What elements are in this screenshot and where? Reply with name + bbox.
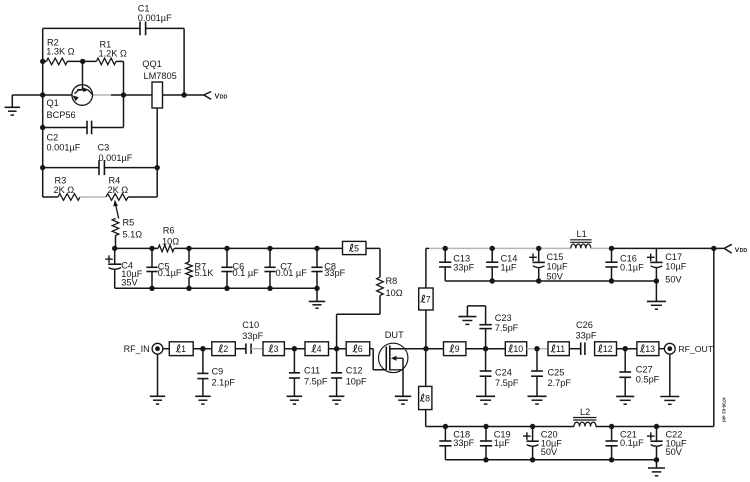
- svg-text:10: 10: [513, 344, 523, 354]
- svg-text:C2: C2: [47, 132, 59, 142]
- svg-text:C27: C27: [636, 364, 653, 374]
- svg-text:2: 2: [223, 344, 228, 354]
- svg-text:7.5pF: 7.5pF: [495, 378, 519, 388]
- svg-text:4: 4: [317, 344, 322, 354]
- svg-text:QQ1: QQ1: [142, 59, 161, 69]
- svg-text:33pF: 33pF: [453, 262, 474, 272]
- svg-text:R6: R6: [163, 225, 175, 235]
- svg-text:1.3K Ω: 1.3K Ω: [46, 47, 74, 57]
- svg-text:5.1Ω: 5.1Ω: [123, 230, 143, 240]
- svg-text:4736-01 a/d: 4736-01 a/d: [722, 397, 727, 422]
- svg-text:L1: L1: [577, 229, 587, 239]
- svg-text:0.5pF: 0.5pF: [636, 375, 660, 385]
- svg-text:13: 13: [645, 344, 655, 354]
- svg-text:1.2K Ω: 1.2K Ω: [99, 49, 127, 59]
- svg-text:33pF: 33pF: [453, 438, 474, 448]
- svg-text:LM7805: LM7805: [144, 71, 177, 81]
- svg-text:3: 3: [274, 344, 279, 354]
- svg-text:35V: 35V: [121, 278, 138, 288]
- svg-text:Q1: Q1: [47, 98, 59, 108]
- svg-text:10pF: 10pF: [346, 376, 367, 386]
- svg-text:DD: DD: [740, 248, 748, 254]
- svg-text:7: 7: [426, 294, 431, 304]
- svg-text:33pF: 33pF: [576, 331, 597, 341]
- svg-text:10Ω: 10Ω: [386, 288, 403, 298]
- svg-text:10Ω: 10Ω: [162, 237, 179, 247]
- svg-text:10µF: 10µF: [547, 262, 569, 272]
- svg-text:C15: C15: [547, 252, 564, 262]
- svg-text:10µF: 10µF: [665, 262, 687, 272]
- svg-text:9: 9: [455, 344, 460, 354]
- svg-text:2K Ω: 2K Ω: [108, 185, 129, 195]
- svg-text:C23: C23: [495, 313, 512, 323]
- svg-text:C9: C9: [212, 367, 224, 377]
- svg-text:50V: 50V: [666, 447, 683, 457]
- svg-text:L2: L2: [580, 407, 590, 417]
- svg-text:0.001µF: 0.001µF: [99, 153, 133, 163]
- svg-text:8: 8: [425, 393, 430, 403]
- svg-text:R3: R3: [55, 176, 67, 186]
- svg-text:BCP56: BCP56: [47, 110, 76, 120]
- svg-text:DD: DD: [220, 95, 228, 101]
- svg-text:C10: C10: [242, 320, 259, 330]
- svg-text:C25: C25: [548, 368, 565, 378]
- svg-text:0.1µF: 0.1µF: [620, 262, 644, 272]
- svg-text:RF_IN: RF_IN: [124, 344, 150, 354]
- svg-text:0.1µF: 0.1µF: [158, 268, 182, 278]
- svg-text:7.5pF: 7.5pF: [304, 376, 328, 386]
- svg-text:50V: 50V: [547, 271, 564, 281]
- svg-text:C24: C24: [495, 368, 512, 378]
- svg-text:0.001µF: 0.001µF: [138, 13, 172, 23]
- svg-text:C17: C17: [665, 252, 682, 262]
- svg-text:C12: C12: [346, 366, 363, 376]
- svg-text:50V: 50V: [541, 447, 558, 457]
- svg-text:1: 1: [181, 344, 186, 354]
- svg-text:33pF: 33pF: [324, 268, 345, 278]
- svg-text:6: 6: [358, 344, 363, 354]
- svg-text:0.01 µF: 0.01 µF: [276, 268, 308, 278]
- svg-text:2K Ω: 2K Ω: [54, 185, 75, 195]
- svg-text:C3: C3: [98, 143, 110, 153]
- svg-text:R4: R4: [109, 176, 121, 186]
- svg-text:5: 5: [354, 243, 359, 253]
- svg-text:5.1K: 5.1K: [195, 268, 215, 278]
- svg-text:1µF: 1µF: [494, 438, 510, 448]
- svg-text:2.1pF: 2.1pF: [212, 377, 236, 387]
- svg-text:1µF: 1µF: [501, 262, 517, 272]
- svg-text:0.1 µF: 0.1 µF: [233, 268, 260, 278]
- svg-text:C26: C26: [576, 320, 593, 330]
- svg-text:33pF: 33pF: [242, 331, 263, 341]
- svg-text:R5: R5: [123, 217, 135, 227]
- svg-text:11: 11: [556, 344, 565, 354]
- svg-text:RF_OUT: RF_OUT: [678, 344, 713, 354]
- svg-text:R8: R8: [386, 276, 398, 286]
- svg-text:12: 12: [603, 344, 613, 354]
- svg-text:DUT: DUT: [385, 330, 404, 340]
- svg-text:0.1µF: 0.1µF: [620, 438, 644, 448]
- svg-text:0.001µF: 0.001µF: [47, 142, 81, 152]
- svg-text:50V: 50V: [665, 274, 682, 284]
- svg-text:2.7pF: 2.7pF: [548, 378, 572, 388]
- svg-text:C1: C1: [138, 3, 150, 13]
- svg-text:7.5pF: 7.5pF: [495, 323, 519, 333]
- svg-text:C11: C11: [304, 366, 320, 376]
